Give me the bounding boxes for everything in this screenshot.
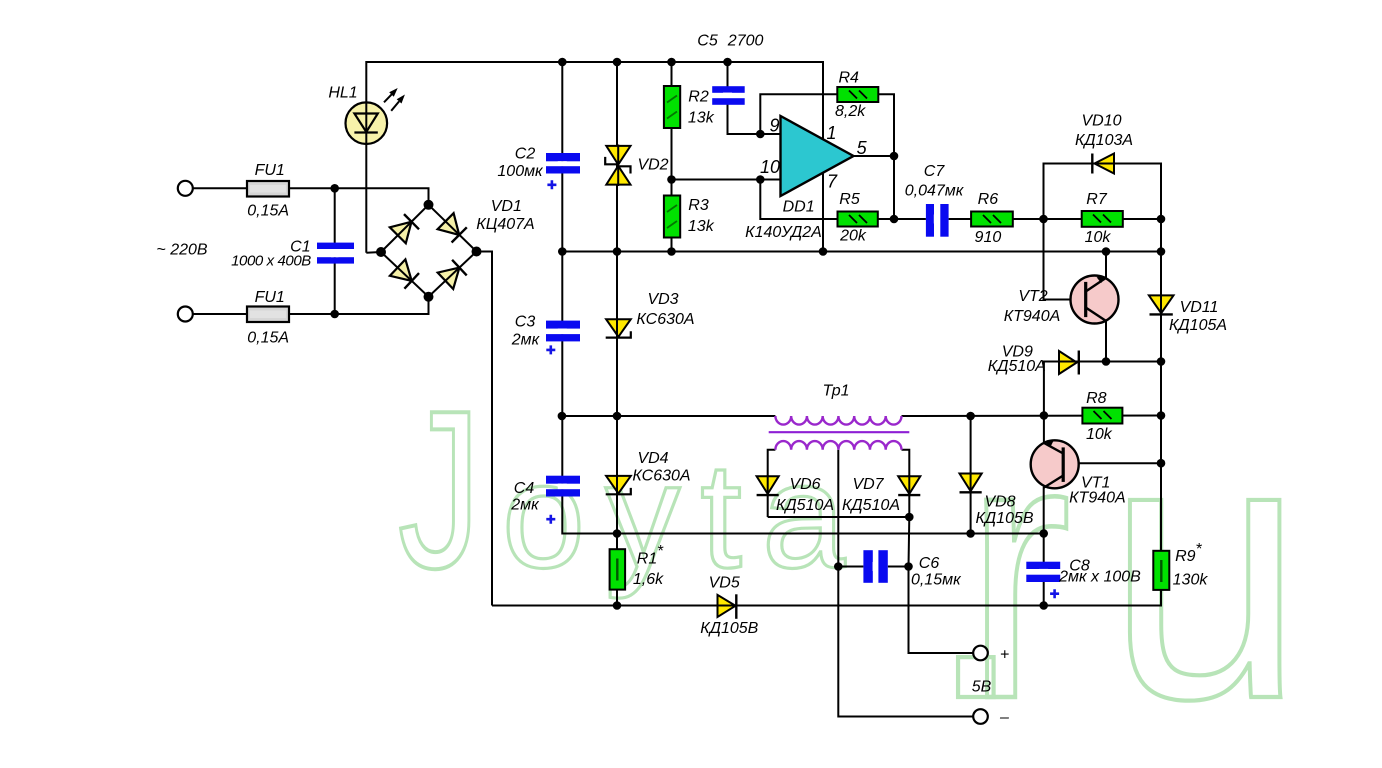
svg-text:КД510А: КД510А bbox=[842, 497, 900, 514]
wire pin10 node to R5 bbox=[760, 180, 837, 220]
wire VD7 node down to C6 row bbox=[908, 517, 911, 567]
svg-text:R6: R6 bbox=[978, 191, 999, 208]
svg-text:0,15A: 0,15A bbox=[247, 330, 289, 347]
wire overlays through diode bodies bbox=[617, 145, 1161, 606]
wire bottom rail y605.5 bbox=[492, 590, 1161, 606]
wire C8 column top bbox=[1043, 534, 1045, 563]
wire VT2 collector down bbox=[1105, 321, 1107, 362]
diode VD7 bbox=[898, 476, 920, 495]
terminal input top bbox=[178, 181, 193, 196]
wire R4 left lead to pin9 node bbox=[760, 94, 837, 134]
label VD3 bbox=[636, 291, 694, 328]
resistor R6 bbox=[971, 212, 1013, 227]
transformer Tp1 core bbox=[769, 431, 910, 433]
capacitor C2 bbox=[546, 153, 580, 189]
svg-text:10k: 10k bbox=[1085, 229, 1112, 246]
wire top rail with HL1 column and pin1 drop bbox=[366, 62, 823, 253]
svg-text:КС630А: КС630А bbox=[636, 311, 694, 328]
label output minus bbox=[999, 709, 1009, 726]
svg-text:R4: R4 bbox=[838, 70, 859, 87]
label R4 bbox=[835, 70, 866, 121]
resistor R8 bbox=[1082, 408, 1122, 424]
label VD4 bbox=[632, 450, 690, 484]
svg-text:VT2: VT2 bbox=[1018, 288, 1047, 305]
capacitor C7 bbox=[926, 204, 949, 237]
svg-text:HL1: HL1 bbox=[328, 85, 357, 102]
diode VD6 bbox=[757, 476, 779, 495]
svg-text:КС630А: КС630А bbox=[632, 467, 690, 484]
svg-text:КТ940А: КТ940А bbox=[1004, 308, 1061, 325]
svg-text:VD5: VD5 bbox=[709, 575, 740, 592]
svg-text:2мк x 100В: 2мк x 100В bbox=[1058, 569, 1141, 586]
svg-text:20k: 20k bbox=[839, 227, 867, 244]
terminal output minus bbox=[973, 709, 988, 724]
wire C4 column and rail y533.5 bbox=[562, 416, 1043, 534]
capacitor C6 bbox=[863, 550, 887, 583]
svg-text:10k: 10k bbox=[1086, 426, 1113, 443]
wire VT1 base to right column bbox=[1063, 462, 1161, 464]
svg-text:VD6: VD6 bbox=[789, 476, 820, 493]
svg-text:VD2: VD2 bbox=[637, 157, 668, 174]
resistor R4 bbox=[837, 87, 878, 102]
wire VD4-R1 column bbox=[616, 416, 618, 606]
svg-text:R5: R5 bbox=[839, 191, 860, 208]
label C5 bbox=[697, 33, 763, 50]
svg-text:КД103А: КД103А bbox=[1075, 132, 1133, 149]
svg-text:C3: C3 bbox=[515, 314, 536, 331]
svg-text:+: + bbox=[1000, 647, 1009, 664]
wire C7 to R6 bbox=[949, 218, 972, 220]
svg-text:VD11: VD11 bbox=[1180, 299, 1219, 316]
diode VD9 bbox=[1059, 351, 1079, 375]
capacitor C3 bbox=[546, 321, 580, 355]
wire bridge output down bbox=[477, 252, 493, 606]
svg-text:J: J bbox=[398, 364, 481, 615]
wire R6 to R7 bbox=[1013, 218, 1082, 220]
fuse FU1 top bbox=[247, 181, 289, 197]
svg-text:R8: R8 bbox=[1086, 390, 1107, 407]
svg-text:10: 10 bbox=[760, 157, 780, 177]
svg-text:2мк: 2мк bbox=[510, 497, 540, 514]
transformer Tp1 secondary winding bbox=[775, 441, 901, 450]
transistor VT1 bbox=[1031, 440, 1079, 488]
label VD6 bbox=[776, 476, 834, 514]
svg-text:130k: 130k bbox=[1173, 572, 1209, 589]
wire VT1 collector down to rail bbox=[1043, 488, 1045, 534]
svg-text:0,15A: 0,15A bbox=[247, 203, 289, 220]
label VT1 bbox=[1069, 474, 1126, 506]
label VD2 bbox=[637, 157, 668, 174]
bridge diode bottom-left bbox=[390, 259, 412, 281]
label C3 bbox=[511, 314, 541, 349]
svg-text:КД510А: КД510А bbox=[776, 497, 834, 514]
label C2 bbox=[497, 146, 544, 181]
svg-text:VD4: VD4 bbox=[637, 450, 668, 467]
svg-text:C4: C4 bbox=[514, 480, 535, 497]
label FU1 bottom bbox=[247, 289, 289, 346]
wire R7 right bbox=[1123, 218, 1161, 220]
wire C8 column bottom bbox=[1043, 582, 1045, 606]
label VD9 bbox=[988, 344, 1046, 375]
wire VD8 column bbox=[970, 416, 972, 534]
bridge diode top-right bbox=[438, 213, 460, 235]
label C7 bbox=[905, 163, 965, 200]
svg-text:0,047мк: 0,047мк bbox=[905, 183, 965, 200]
svg-text:C7: C7 bbox=[924, 163, 946, 180]
svg-text:7: 7 bbox=[827, 171, 838, 191]
svg-text:0,15мк: 0,15мк bbox=[911, 572, 962, 589]
label R6 bbox=[975, 191, 1002, 246]
label DD1 bbox=[745, 199, 822, 242]
svg-text:C5: C5 bbox=[697, 33, 718, 50]
watermark Joyta.ru bbox=[398, 359, 1304, 768]
capacitor C5 bbox=[712, 86, 745, 105]
svg-text:*: * bbox=[1195, 541, 1202, 558]
bridge diode top-left bbox=[390, 222, 412, 244]
wire C6 right lead bbox=[888, 566, 909, 568]
wire AC line bottom bbox=[193, 297, 428, 314]
label Tp1 bbox=[822, 383, 849, 400]
wire C2 column bbox=[561, 62, 563, 252]
wire output pin5 bbox=[854, 155, 895, 157]
svg-text:*: * bbox=[657, 543, 664, 560]
svg-text:FU1: FU1 bbox=[255, 162, 285, 179]
svg-text:К140УД2А: К140УД2А bbox=[745, 224, 822, 241]
label 5V bbox=[972, 679, 992, 696]
label VT2 bbox=[1004, 288, 1061, 325]
wire center tap down to minus terminal bbox=[838, 450, 973, 717]
svg-text:13k: 13k bbox=[688, 110, 715, 127]
wire C5 column top bbox=[727, 62, 729, 87]
resistor R3 bbox=[664, 196, 680, 238]
label output plus bbox=[1000, 647, 1009, 664]
resistor R7 bbox=[1082, 211, 1123, 227]
svg-text:VD1: VD1 bbox=[491, 198, 522, 215]
svg-text:FU1: FU1 bbox=[255, 289, 285, 306]
wire plus output down bbox=[909, 567, 974, 654]
svg-text:VD7: VD7 bbox=[852, 476, 884, 493]
label ~220V bbox=[156, 242, 207, 259]
zener VD2 bbox=[605, 146, 630, 185]
svg-text:9: 9 bbox=[769, 116, 779, 136]
capacitor C8 bbox=[1026, 562, 1060, 599]
wire C6 left lead bbox=[838, 566, 863, 568]
wire VD10 loop bbox=[1044, 164, 1162, 220]
wire VD9 cathode row bbox=[1079, 361, 1161, 363]
wire VT2 emitter up bbox=[1105, 252, 1107, 279]
svg-text:1,6k: 1,6k bbox=[633, 571, 664, 588]
svg-text:R9: R9 bbox=[1175, 548, 1196, 565]
bridge cathode bars bbox=[404, 214, 467, 289]
svg-text:DD1: DD1 bbox=[783, 199, 815, 216]
zener VD4 bbox=[606, 476, 631, 494]
resistor R2 bbox=[664, 86, 680, 128]
wire AC line top bbox=[193, 188, 428, 205]
svg-text:R2: R2 bbox=[688, 89, 709, 106]
svg-text:C2: C2 bbox=[515, 146, 536, 163]
op-amp DD1 bbox=[781, 116, 854, 196]
diode VD10 bbox=[1092, 154, 1114, 174]
svg-text:2мк: 2мк bbox=[511, 332, 541, 349]
zener VD3 bbox=[606, 319, 631, 337]
wire HL1 to bridge left corner bbox=[366, 251, 381, 254]
svg-text:C6: C6 bbox=[919, 555, 940, 572]
wire x1161 main right column bbox=[1160, 164, 1162, 551]
label VD10 bbox=[1075, 112, 1133, 149]
wire C5 bottom to pin9 bbox=[728, 104, 781, 134]
label HL1 bbox=[328, 85, 357, 102]
label VD7 bbox=[842, 476, 900, 514]
diode VD5 bbox=[718, 594, 737, 619]
capacitor C4 bbox=[546, 476, 580, 524]
wire rail3 left part y416 bbox=[562, 415, 776, 417]
rectifier bridge VD1 bbox=[381, 205, 477, 297]
svg-text:910: 910 bbox=[975, 229, 1002, 246]
terminal output plus bbox=[973, 646, 988, 661]
svg-text:КД510А: КД510А bbox=[988, 358, 1046, 375]
resistor R9 bbox=[1153, 551, 1169, 590]
LED HL1 bbox=[346, 88, 405, 144]
label VD1 bbox=[476, 198, 534, 233]
label R9 bbox=[1173, 541, 1209, 589]
wire secondary left stub and VD6 column bbox=[768, 450, 776, 517]
wire rail V- y251.5 bbox=[562, 251, 1161, 253]
bridge diamond frame bbox=[381, 205, 477, 297]
diode VD8 bbox=[960, 474, 982, 493]
label FU1 top bbox=[247, 162, 289, 220]
label R3 bbox=[688, 197, 715, 235]
terminal input bottom bbox=[178, 307, 193, 322]
svg-text:КД105А: КД105А bbox=[1169, 317, 1227, 334]
label VD8 bbox=[975, 494, 1033, 528]
svg-text:КЦ407А: КЦ407А bbox=[476, 216, 534, 233]
wire VD6-VD7 cathode row bbox=[768, 516, 910, 518]
label R5 bbox=[839, 191, 867, 244]
svg-text:u: u bbox=[1107, 361, 1304, 768]
wire VD2 column bbox=[616, 62, 618, 252]
transistor VT2 bbox=[1071, 276, 1119, 324]
pin numbers DD1 bbox=[760, 116, 868, 192]
wire VT1 emitter up bbox=[1043, 416, 1045, 444]
svg-text:~ 220В: ~ 220В bbox=[156, 242, 207, 259]
svg-text:VD8: VD8 bbox=[984, 494, 1015, 511]
label VD11 bbox=[1169, 299, 1227, 334]
svg-text:VD3: VD3 bbox=[647, 291, 678, 308]
svg-text:2700: 2700 bbox=[727, 33, 764, 50]
svg-text:13k: 13k bbox=[688, 218, 715, 235]
wire pin10 input bbox=[672, 179, 781, 181]
wire pin7 to rail bbox=[822, 173, 824, 252]
svg-text:5В: 5В bbox=[972, 679, 992, 696]
wire R2-R3 column bbox=[671, 62, 673, 252]
transformer Tp1 primary winding bbox=[775, 416, 901, 425]
wire VD3 column bbox=[616, 252, 618, 417]
resistor R5 bbox=[838, 212, 878, 227]
svg-text:КД105В: КД105В bbox=[975, 510, 1033, 527]
svg-text:VD10: VD10 bbox=[1081, 112, 1121, 129]
wire rail3 right part y416 bbox=[902, 415, 1162, 418]
label R2 bbox=[688, 89, 715, 127]
svg-text:1: 1 bbox=[826, 123, 836, 143]
wire R4 right lead and output node column bbox=[878, 94, 894, 219]
svg-text:8,2k: 8,2k bbox=[835, 103, 866, 120]
label C1 bbox=[231, 238, 311, 269]
label R1 bbox=[633, 543, 664, 588]
svg-text:1000 x 400В: 1000 x 400В bbox=[231, 253, 311, 270]
svg-text:КТ940А: КТ940А bbox=[1069, 490, 1126, 507]
wire secondary right stub and VD7 column bbox=[902, 450, 910, 517]
bridge diode bottom-right bbox=[438, 268, 460, 289]
wire C3 column bbox=[561, 252, 563, 417]
svg-text:5: 5 bbox=[857, 138, 868, 158]
label R8 bbox=[1086, 390, 1113, 443]
label VD5 bbox=[700, 575, 758, 638]
svg-text:R1: R1 bbox=[637, 551, 657, 568]
label C6 bbox=[911, 555, 962, 589]
svg-text:R7: R7 bbox=[1086, 191, 1108, 208]
wire VD9 anode from rail3 bbox=[1044, 362, 1059, 416]
wire R5 to C7 bbox=[878, 218, 926, 220]
label R7 bbox=[1085, 191, 1112, 246]
resistor R1 bbox=[610, 549, 626, 589]
svg-text:–: – bbox=[999, 709, 1009, 726]
diode VD11 bbox=[1149, 295, 1174, 314]
svg-text:Тр1: Тр1 bbox=[822, 383, 849, 400]
svg-text:R3: R3 bbox=[688, 197, 709, 214]
wire C1 column bbox=[334, 188, 336, 314]
label C8 bbox=[1058, 557, 1141, 585]
fuse FU1 bottom bbox=[247, 307, 289, 323]
wire VT2 base bbox=[1044, 219, 1086, 300]
capacitor C1 bbox=[317, 243, 354, 264]
svg-text:100мк: 100мк bbox=[497, 163, 544, 180]
svg-text:oyta: oyta bbox=[502, 431, 866, 599]
label C4 bbox=[510, 480, 540, 514]
svg-text:КД105В: КД105В bbox=[700, 620, 758, 637]
